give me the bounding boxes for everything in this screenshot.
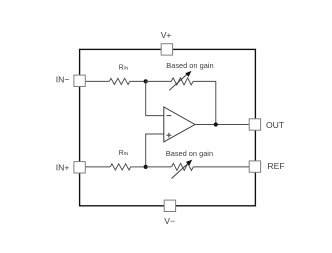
wire RIN top to node A xyxy=(130,80,146,82)
svg-text:REF: REF xyxy=(267,161,284,171)
svg-text:IN−: IN− xyxy=(56,75,70,85)
wire IN- pad to resistor RIN top xyxy=(85,80,109,82)
svg-text:Based on gain: Based on gain xyxy=(166,149,213,158)
svg-text:V+: V+ xyxy=(161,30,172,40)
op-amp plus sign xyxy=(166,134,171,136)
gain resistor top arrow xyxy=(169,74,187,90)
gain resistor bottom (variable) zigzag xyxy=(172,163,194,170)
V- pad xyxy=(164,200,175,211)
resistor RIN (bottom) xyxy=(110,164,131,170)
wire op-amp output to OUT pad xyxy=(195,124,249,126)
outer device boundary box xyxy=(80,49,256,205)
wire IN+ pad to resistor RIN bottom xyxy=(85,166,110,168)
wire node B to gain resistor bottom xyxy=(146,166,172,168)
svg-text:RIN: RIN xyxy=(119,150,129,157)
IN+ pad xyxy=(74,162,85,173)
OUT pad xyxy=(249,119,260,130)
wire node A down to op-amp inverting input xyxy=(146,81,164,115)
wire gain resistor bottom to REF pad xyxy=(193,166,249,168)
svg-text:RIN: RIN xyxy=(119,64,129,71)
REF pad xyxy=(249,161,260,172)
output node junction dot xyxy=(214,122,218,126)
node A junction dot (top) xyxy=(144,79,148,83)
wire RIN bottom to node B xyxy=(131,166,146,168)
op-amp minus sign xyxy=(167,115,172,117)
V+ pad xyxy=(161,44,172,55)
resistor RIN (top) xyxy=(109,78,130,84)
gain resistor bottom arrow xyxy=(172,163,189,178)
svg-text:Based on gain: Based on gain xyxy=(166,61,213,70)
wire op-amp non-inverting input to node B xyxy=(146,134,164,167)
node B junction dot (bottom) xyxy=(144,165,148,169)
op-amp U1 triangle xyxy=(164,107,195,142)
svg-text:OUT: OUT xyxy=(266,120,285,130)
gain resistor top (variable) zigzag xyxy=(171,78,193,85)
wire gain resistor top to feedback corner xyxy=(193,81,216,124)
wire node A to gain resistor top xyxy=(146,80,172,82)
IN- pad xyxy=(74,75,85,86)
svg-text:IN+: IN+ xyxy=(56,162,70,172)
svg-text:V−: V− xyxy=(164,216,175,226)
